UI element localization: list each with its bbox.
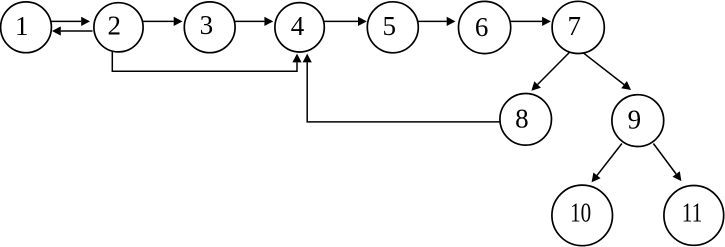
svg-text:4: 4 <box>291 11 305 41</box>
svg-text:8: 8 <box>515 103 529 133</box>
svg-text:10: 10 <box>570 198 591 228</box>
svg-text:1: 1 <box>15 11 29 41</box>
svg-text:3: 3 <box>200 10 214 40</box>
svg-text:7: 7 <box>567 11 581 41</box>
svg-text:11: 11 <box>682 198 703 228</box>
svg-text:5: 5 <box>382 11 396 41</box>
svg-text:2: 2 <box>108 11 122 41</box>
svg-text:9: 9 <box>628 105 642 135</box>
svg-text:6: 6 <box>475 12 489 42</box>
